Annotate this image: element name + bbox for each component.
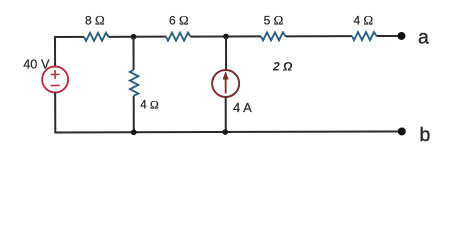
- wire top-left segment: [55, 36, 84, 38]
- svg-text:5 Ω: 5 Ω: [264, 13, 284, 28]
- svg-text:6 Ω: 6 Ω: [169, 13, 189, 28]
- voltage source minus sign: [51, 84, 60, 86]
- bottom junction dot under R5: [131, 129, 137, 135]
- resistor R2 6ohm: [166, 33, 191, 41]
- wire I1 down to bottom: [225, 97, 227, 132]
- current source arrow head: [223, 71, 229, 79]
- svg-text:a: a: [418, 27, 429, 49]
- svg-text:2 Ω: 2 Ω: [272, 60, 293, 74]
- resistor R4 4ohm top right: [352, 32, 377, 40]
- svg-text:4 Ω: 4 Ω: [140, 98, 159, 112]
- voltage source plus sign: [51, 70, 60, 79]
- svg-text:40 V: 40 V: [23, 57, 50, 72]
- resistor R3 5ohm: [261, 32, 286, 40]
- wire left vertical bottom: [54, 91, 401, 133]
- terminal a dot: [397, 32, 405, 40]
- wire between R1 and node A: [108, 36, 165, 38]
- resistor R5 4ohm vertical: [130, 70, 138, 96]
- node A junction dot: [131, 34, 137, 40]
- wire left vertical top: [54, 36, 56, 66]
- resistor R1 8ohm: [84, 33, 109, 41]
- wire R4 to terminal a: [376, 35, 400, 37]
- current source arrow shaft: [225, 77, 227, 93]
- wire node B down to I1: [225, 36, 227, 69]
- bottom junction dot under I1: [222, 129, 228, 135]
- wire between R2 and node B: [190, 35, 260, 37]
- current source I1 circle: [212, 70, 239, 97]
- node B junction dot: [223, 34, 229, 40]
- voltage source V1 circle: [42, 66, 68, 92]
- wire R5 down to bottom: [133, 96, 135, 132]
- svg-text:4 Ω: 4 Ω: [354, 13, 374, 28]
- wire node A down to R5: [132, 37, 134, 70]
- svg-text:b: b: [420, 124, 431, 146]
- wire between R3 and R4: [285, 35, 351, 37]
- terminal b dot: [398, 127, 406, 135]
- svg-text:8 Ω: 8 Ω: [85, 13, 105, 28]
- svg-text:4 A: 4 A: [233, 100, 252, 115]
